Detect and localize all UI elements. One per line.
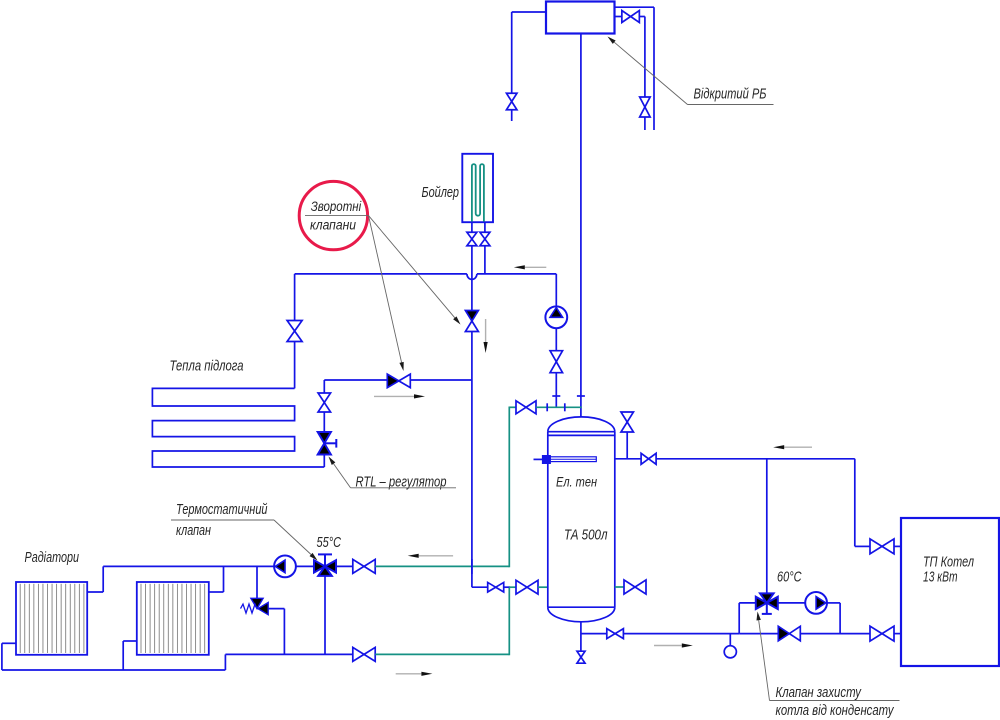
svg-text:Зворотні: Зворотні bbox=[311, 199, 362, 214]
svg-text:Ел. тен: Ел. тен bbox=[556, 475, 597, 490]
svg-text:13 кВт: 13 кВт bbox=[923, 570, 958, 586]
svg-text:Термостатичний: Термостатичний bbox=[176, 502, 268, 518]
svg-text:Клапан захисту: Клапан захисту bbox=[776, 685, 862, 701]
svg-text:ТП Котел: ТП Котел bbox=[923, 555, 974, 571]
svg-text:клапани: клапани bbox=[310, 218, 356, 233]
svg-text:Відкритий РБ: Відкритий РБ bbox=[694, 87, 767, 103]
svg-text:Тепла підлога: Тепла підлога bbox=[170, 359, 244, 375]
svg-text:Бойлер: Бойлер bbox=[422, 185, 460, 201]
svg-text:55°С: 55°С bbox=[317, 535, 342, 551]
svg-text:Радіатори: Радіатори bbox=[25, 550, 80, 566]
svg-text:ТА 500л: ТА 500л bbox=[564, 528, 608, 544]
svg-text:котла від конденсату: котла від конденсату bbox=[776, 703, 895, 719]
svg-text:клапан: клапан bbox=[176, 523, 211, 539]
svg-text:60°С: 60°С bbox=[777, 570, 802, 586]
